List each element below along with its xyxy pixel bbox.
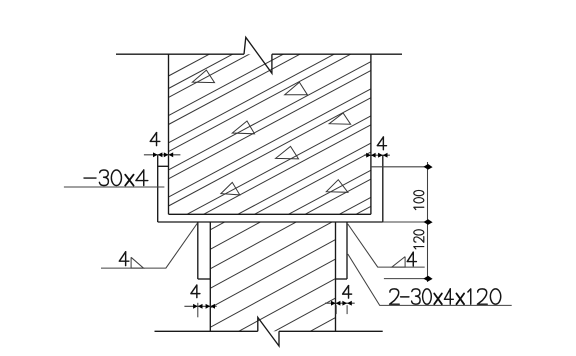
right weld leader [348, 224, 425, 267]
dim tick middle [423, 219, 432, 225]
hatch pattern of upper column section [167, 0, 373, 316]
left plate 4mm dim line [144, 154, 181, 156]
right weld text 4 [412, 252, 414, 266]
right strap 4mm dim line [325, 302, 355, 304]
shoe plate left leg outer face [157, 155, 159, 222]
lower column left edge [209, 222, 211, 331]
aggregate triangle t1 [192, 70, 214, 83]
label -30x4 leader underline [64, 186, 164, 188]
lower boundary line (left part) [155, 330, 258, 332]
left strap dim text 4 [196, 285, 198, 298]
label 2-30x4x120 leader [348, 254, 512, 305]
shoe plate right leg outer face [382, 155, 384, 222]
right weld fillet triangle [392, 257, 405, 268]
dim tick top [423, 164, 432, 170]
shoe plate left leg top cap [158, 165, 169, 167]
dim text 100 [414, 190, 424, 209]
left plate dim text 4 [156, 133, 158, 146]
right strap outer face [346, 222, 348, 279]
left weld leader [101, 223, 198, 268]
upper boundary line (left part) [116, 53, 244, 55]
dim text 120 [414, 230, 424, 249]
hatch pattern of lower column section [208, 160, 337, 356]
right strap bottom cap [336, 278, 348, 280]
left weld fillet triangle [131, 257, 143, 268]
aggregate triangle t6 [221, 182, 240, 195]
bottom extension line [384, 278, 431, 280]
left weld text 4 [125, 252, 127, 266]
lower boundary line (right part) [279, 330, 383, 332]
shoe plate bottom edge [158, 221, 383, 223]
upper column right edge [370, 54, 372, 214]
left strap 4mm dim line [184, 305, 216, 307]
bottom edge extension line [383, 221, 431, 223]
left plate 4mm dim arrows [153, 152, 158, 157]
left strap bottom cap [198, 278, 211, 280]
aggregate triangle t3 [232, 121, 254, 134]
dimension line vertical [427, 162, 429, 282]
dim tick bottom [423, 276, 432, 282]
upper boundary line (right part) [272, 53, 402, 55]
right plate 4mm dim arrows [366, 153, 371, 158]
aggregate triangle t5 [276, 146, 299, 159]
label -30x4 [84, 177, 96, 179]
lower column right edge [335, 222, 337, 331]
left strap outer face [197, 222, 199, 279]
label 2-30x4x120 [390, 289, 400, 304]
break symbol (bottom) [258, 317, 279, 346]
aggregate triangle t4 [329, 113, 350, 124]
right strap dim ext stubs [335, 305, 337, 314]
upper column bottom edge [169, 213, 371, 215]
right strap dim text 4 [348, 286, 350, 299]
upper column left edge [168, 54, 170, 214]
aggregate triangle t7 [326, 180, 348, 193]
right plate 4mm dim line [364, 154, 390, 156]
left strap dim ext stub [197, 303, 199, 318]
aggregate triangle t2 [285, 82, 308, 95]
right plate dim text 4 [382, 137, 384, 150]
break symbol (top) [244, 37, 272, 73]
shoe plate right leg top cap / extension line [371, 166, 431, 168]
